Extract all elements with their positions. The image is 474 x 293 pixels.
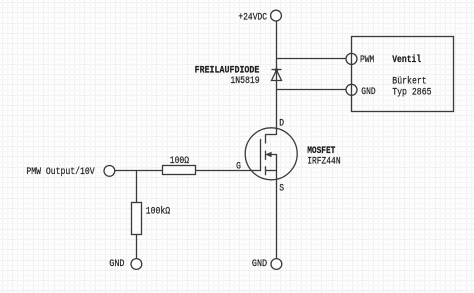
svg-text:Typ 2865: Typ 2865 bbox=[392, 87, 431, 98]
valve box Ventil Buerkert Typ 2865 bbox=[352, 37, 454, 112]
diode D1 junction dot bbox=[275, 68, 279, 72]
svg-text:MOSFET: MOSFET bbox=[307, 146, 335, 157]
svg-text:Ventil: Ventil bbox=[392, 54, 421, 66]
resistor R2 100k body bbox=[132, 203, 142, 235]
wire: branch to PWM bbox=[276, 58, 346, 60]
MOSFET Q1 source stub bbox=[266, 170, 277, 172]
MOSFET Q1 substrate stub with connector bbox=[271, 155, 277, 171]
svg-text:GND: GND bbox=[361, 87, 375, 98]
svg-text:PWM: PWM bbox=[360, 55, 374, 66]
terminal +24VDC bbox=[271, 10, 282, 21]
svg-text:GND: GND bbox=[109, 259, 124, 270]
terminal PMW Output bbox=[104, 166, 115, 177]
svg-text:100Ω: 100Ω bbox=[170, 156, 189, 167]
svg-text:FREILAUFDIODE: FREILAUFDIODE bbox=[195, 66, 260, 77]
svg-text:1N5819: 1N5819 bbox=[230, 76, 259, 87]
terminal GND (valve) bbox=[346, 84, 357, 95]
svg-text:PMW Output/10V: PMW Output/10V bbox=[26, 166, 95, 178]
wire: MOSFET source down to GND terminal bbox=[276, 171, 278, 259]
wire: gate horizontal from PMW terminal to gate bar bbox=[115, 170, 261, 172]
MOSFET Q1 channel dashes bbox=[265, 134, 267, 175]
terminal PWM (valve) bbox=[346, 53, 357, 64]
svg-text:G: G bbox=[236, 162, 241, 173]
terminal GND left bbox=[131, 259, 142, 270]
wire: junction down to 100k resistor bbox=[136, 171, 138, 203]
svg-text:+24VDC: +24VDC bbox=[238, 13, 267, 24]
resistor R1 100 ohm body bbox=[163, 166, 196, 175]
svg-text:GND: GND bbox=[252, 259, 267, 270]
wire: +24VDC down to MOSFET drain bbox=[276, 21, 278, 135]
svg-text:D: D bbox=[279, 119, 284, 130]
terminal GND source bbox=[271, 259, 282, 270]
wire: 100k resistor to GND terminal bbox=[136, 235, 138, 259]
MOSFET Q1 substrate arrow bbox=[265, 152, 271, 157]
MOSFET Q1 body circle bbox=[245, 128, 297, 180]
svg-text:IRFZ44N: IRFZ44N bbox=[307, 157, 340, 168]
MOSFET Q1 drain stub bbox=[266, 134, 277, 136]
svg-text:S: S bbox=[279, 184, 284, 195]
MOSFET Q1 gate bar bbox=[260, 139, 262, 171]
diode D1 1N5819 cathode bar bbox=[272, 69, 282, 71]
wire: branch to GND of valve bbox=[276, 89, 346, 91]
svg-text:Bürkert: Bürkert bbox=[392, 75, 426, 87]
svg-text:100kΩ: 100kΩ bbox=[146, 205, 170, 217]
diode D1 1N5819 triangle bbox=[272, 70, 282, 81]
